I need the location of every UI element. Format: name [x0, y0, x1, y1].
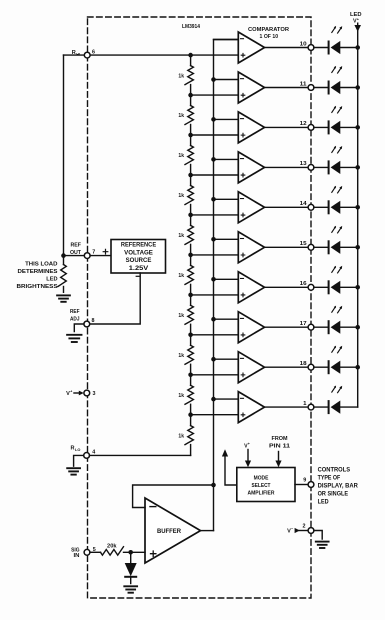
- wire ladder tap to U6 non-inverting input: [191, 254, 239, 256]
- svg-text:REF: REF: [71, 242, 82, 248]
- wire pin 13 to LED D4: [314, 166, 329, 168]
- wire signal bus to U10 inverting input: [214, 398, 239, 400]
- svg-text:REFERENCE: REFERENCE: [121, 242, 156, 249]
- svg-text:1k: 1k: [178, 313, 184, 319]
- LED D2: [328, 82, 330, 94]
- wire signal bus (buffer output to comparators): [214, 40, 239, 531]
- resistor 20k: [101, 547, 124, 555]
- mode select amplifier box: [237, 468, 295, 502]
- svg-text:15: 15: [300, 241, 307, 247]
- resistor R8 1k: [185, 345, 193, 364]
- junction input clamp: [128, 550, 133, 555]
- wire ladder tap to U4 non-inverting input: [191, 174, 239, 176]
- wire ladder tap to U5 non-inverting input: [191, 214, 239, 216]
- resistor R1 1k: [185, 66, 193, 85]
- wire ladder segment 6 lower lead: [190, 284, 192, 295]
- LED V+ rail wire: [357, 30, 359, 407]
- wire ladder tap to U3 non-inverting input: [191, 134, 239, 136]
- wire U4 output to pin 13: [265, 166, 309, 168]
- svg-text:ADJ: ADJ: [70, 317, 80, 323]
- wire LED D9 anode to V+ rail: [340, 366, 357, 368]
- resistor load (LED brightness): [63, 256, 65, 265]
- wire pin 2 to ground: [314, 531, 322, 540]
- svg-text:4: 4: [92, 449, 95, 455]
- wire pin 6 to left rail: [64, 54, 85, 56]
- wire FROM PIN 11 arrow into mode select: [278, 452, 280, 462]
- junction on signal bus at U7: [211, 277, 216, 282]
- wire signal bus to U4 inverting input: [214, 158, 239, 160]
- resistor R4 1k: [185, 186, 193, 205]
- wire ladder tap to U2 non-inverting input: [191, 94, 239, 96]
- svg-text:OR SINGLE: OR SINGLE: [318, 492, 349, 498]
- svg-text:R: R: [71, 445, 75, 451]
- wire ladder tap to U9 non-inverting input: [191, 374, 239, 376]
- wire U6 output to pin 15: [265, 246, 309, 248]
- junction REF OUT / load: [61, 253, 66, 258]
- op-amp comparator U7: [238, 272, 264, 303]
- svg-text:COMPARATOR: COMPARATOR: [248, 27, 289, 33]
- junction V+ rail row 9: [355, 365, 360, 370]
- wire pin 17 to LED D8: [314, 326, 329, 328]
- ground under clamp diode: [124, 585, 137, 587]
- wire ladder segment 1 lower lead: [190, 85, 192, 96]
- svg-text:PIN 11: PIN 11: [269, 444, 290, 450]
- svg-text:7: 7: [92, 249, 95, 255]
- wire ladder tap to U8 non-inverting input: [191, 334, 239, 336]
- reference voltage source box: [111, 240, 166, 274]
- wire buffer feedback loop: [133, 485, 214, 508]
- junction V+ rail row 5: [355, 205, 360, 210]
- svg-text:20k: 20k: [107, 544, 117, 550]
- wire ladder segment 2 upper lead: [190, 95, 192, 105]
- wire LED D2 anode to V+ rail: [340, 87, 357, 89]
- junction ladder tap 2: [188, 93, 193, 98]
- junction ladder tap 8: [188, 333, 193, 338]
- wire LED D1 anode to V+ rail: [340, 47, 357, 49]
- wire ladder segment 3 upper lead: [190, 135, 192, 146]
- wire ladder segment 10 upper lead: [190, 415, 192, 426]
- LED D5: [328, 201, 330, 213]
- wire signal bus to U3 inverting input: [214, 118, 239, 120]
- wire buffer output to signal bus: [201, 530, 214, 532]
- op-amp comparator U2: [238, 72, 264, 103]
- wire ladder segment 8 upper lead: [190, 335, 192, 346]
- wire ladder segment 1 upper lead: [190, 55, 192, 66]
- wire pin 7 to load node: [64, 255, 85, 257]
- resistor R5 1k: [185, 225, 193, 244]
- op-amp comparator U10: [238, 392, 264, 423]
- wire ladder tap to U10 non-inverting input: [191, 414, 239, 416]
- LED D6: [328, 241, 330, 253]
- wire ladder segment 9 lower lead: [190, 404, 192, 414]
- wire U2 output to pin 11: [265, 87, 309, 89]
- svg-text:DETERMINES: DETERMINES: [18, 269, 59, 275]
- ground at pin 2: [316, 541, 329, 543]
- resistor R9 1k: [185, 385, 193, 404]
- resistor R7 1k: [185, 305, 193, 324]
- junction V+ rail row 8: [355, 325, 360, 330]
- diode input clamp: [130, 552, 132, 563]
- junction on signal bus at U3: [211, 117, 216, 122]
- junction on signal bus at U5: [211, 197, 216, 202]
- LED D7: [328, 281, 330, 293]
- LED D9: [328, 361, 330, 373]
- wire signal bus to U7 inverting input: [214, 278, 239, 280]
- wire pin 4 to ladder bottom: [90, 454, 191, 456]
- wire ladder segment 10 lower lead: [190, 445, 192, 456]
- wire ladder segment 2 lower lead: [190, 125, 192, 136]
- junction on signal bus at U4: [211, 157, 216, 162]
- wire LED D3 anode to V+ rail: [340, 126, 357, 128]
- junction V+ rail row 2: [355, 85, 360, 90]
- junction on signal bus at U10: [211, 397, 216, 402]
- wire U1 output to pin 10: [265, 47, 309, 49]
- svg-text:1k: 1k: [178, 153, 184, 159]
- wire R_HI to ladder top and U1 non-inverting input: [90, 54, 238, 56]
- svg-text:13: 13: [300, 161, 307, 167]
- wire U9 output to pin 18: [265, 366, 309, 368]
- wire ladder segment 4 lower lead: [190, 205, 192, 215]
- svg-text:1: 1: [303, 401, 306, 407]
- wire ladder segment 4 upper lead: [190, 175, 192, 186]
- wire signal bus to U2 inverting input: [214, 79, 239, 81]
- svg-text:MODE: MODE: [254, 476, 269, 482]
- svg-text:THIS LOAD: THIS LOAD: [25, 261, 58, 267]
- svg-text:BUFFER: BUFFER: [157, 529, 182, 535]
- wire LED D10 anode to V+ rail: [340, 406, 357, 408]
- LED D1: [328, 42, 330, 54]
- svg-text:FROM: FROM: [272, 436, 288, 442]
- wire signal bus to U8 inverting input: [214, 318, 239, 320]
- wire LED D8 anode to V+ rail: [340, 326, 357, 328]
- wire ladder segment 8 lower lead: [190, 364, 192, 375]
- wire pin 16 to LED D7: [314, 286, 329, 288]
- svg-text:BRIGHTNESS: BRIGHTNESS: [17, 284, 59, 290]
- svg-text:12: 12: [300, 121, 307, 127]
- wire signal bus to U1 inverting input: [214, 39, 239, 41]
- svg-text:LO: LO: [75, 447, 80, 452]
- junction on signal bus at U6: [211, 237, 216, 242]
- svg-text:CONTROLS: CONTROLS: [318, 467, 351, 473]
- op-amp comparator U5: [238, 192, 264, 223]
- wire pin 8 to ground: [74, 324, 84, 332]
- wire ladder segment 7 lower lead: [190, 324, 192, 335]
- junction ladder tap 4: [188, 173, 193, 178]
- wire pin 4 to ground: [74, 455, 84, 466]
- LED D10: [328, 401, 330, 413]
- junction V+ rail row 7: [355, 285, 360, 290]
- wire mode select output to pin 9: [295, 484, 308, 486]
- wire U10 output to pin 1: [265, 406, 309, 408]
- wire pin 14 to LED D5: [314, 206, 329, 208]
- wire ladder segment 6 upper lead: [190, 255, 192, 266]
- wire ladder segment 5 lower lead: [190, 244, 192, 255]
- junction ladder top: [188, 53, 193, 58]
- junction ladder tap 3: [188, 133, 193, 138]
- svg-text:LED: LED: [46, 277, 57, 283]
- svg-text:TYPE OF: TYPE OF: [318, 475, 341, 481]
- svg-text:8: 8: [92, 318, 95, 324]
- svg-text:VOLTAGE: VOLTAGE: [124, 249, 153, 256]
- wire pin 7 to reference box: [90, 255, 111, 257]
- wire ladder segment 3 lower lead: [190, 165, 192, 176]
- LED D4: [328, 161, 330, 173]
- resistor R6 1k: [185, 265, 193, 284]
- op-amp comparator U9: [238, 352, 264, 383]
- wire resistor to buffer + input: [124, 551, 146, 553]
- resistor R2 1k: [185, 106, 193, 125]
- svg-text:1k: 1k: [178, 433, 184, 439]
- wire U8 output to pin 17: [265, 326, 309, 328]
- junction ladder tap 10: [188, 412, 193, 417]
- resistor R10 1k: [185, 426, 193, 445]
- svg-text:SELECT: SELECT: [252, 483, 271, 489]
- svg-text:SOURCE: SOURCE: [126, 257, 152, 264]
- wire reference box to pin 8: [90, 273, 140, 324]
- wire ladder segment 7 upper lead: [190, 295, 192, 305]
- wire pin 12 to LED D3: [314, 126, 329, 128]
- wire ladder segment 5 upper lead: [190, 215, 192, 226]
- ground under load resistor: [57, 294, 70, 296]
- svg-text:1 OF 10: 1 OF 10: [260, 34, 279, 40]
- junction ladder tap 5: [188, 213, 193, 218]
- op-amp comparator U3: [238, 112, 264, 143]
- op-amp comparator U1: [238, 32, 264, 63]
- wire ladder segment 9 upper lead: [190, 375, 192, 386]
- junction ladder tap 9: [188, 373, 193, 378]
- wire signal bus to U9 inverting input: [214, 358, 239, 360]
- svg-text:IN: IN: [74, 553, 80, 559]
- wire pin 15 to LED D6: [314, 246, 329, 248]
- wire LED D5 anode to V+ rail: [340, 206, 357, 208]
- svg-text:3: 3: [93, 391, 96, 397]
- svg-text:DISPLAY, BAR: DISPLAY, BAR: [318, 484, 359, 490]
- svg-text:1k: 1k: [178, 113, 184, 119]
- wire pin 5 to resistor: [90, 551, 101, 553]
- svg-text:6: 6: [92, 50, 95, 56]
- junction on signal bus at U9: [211, 357, 216, 362]
- wire U3 output to pin 12: [265, 126, 309, 128]
- resistor R3 1k: [185, 146, 193, 165]
- wire V+ arrow into mode select: [247, 450, 249, 462]
- junction V+ rail row 4: [355, 165, 360, 170]
- svg-text:1.25V: 1.25V: [129, 265, 150, 272]
- op-amp comparator U4: [238, 152, 264, 183]
- svg-text:10: 10: [300, 41, 307, 47]
- svg-text:1k: 1k: [178, 393, 184, 399]
- IC boundary dashed box LM3914: [88, 17, 312, 598]
- wire pin 11 to LED D2: [314, 87, 329, 89]
- wire U7 output to pin 16: [265, 286, 309, 288]
- junction V+ rail row 3: [355, 125, 360, 130]
- svg-text:1k: 1k: [178, 233, 184, 239]
- svg-text:1k: 1k: [178, 73, 184, 79]
- LED V+ supply arrow: [357, 23, 359, 26]
- svg-text:AMPLIFIER: AMPLIFIER: [248, 490, 275, 496]
- wire pin 1 to LED D10: [314, 406, 329, 408]
- wire LED D7 anode to V+ rail: [340, 286, 357, 288]
- ground at R_LO: [67, 467, 80, 469]
- wire left rail down to REF OUT node: [63, 55, 65, 256]
- svg-text:REF: REF: [70, 309, 80, 315]
- junction V+ rail row 1: [355, 45, 360, 50]
- wire U5 output to pin 14: [265, 206, 309, 208]
- svg-text:1k: 1k: [178, 353, 184, 359]
- svg-text:1k: 1k: [178, 273, 184, 279]
- wire ladder tap to U7 non-inverting input: [191, 294, 239, 296]
- svg-text:14: 14: [300, 201, 308, 207]
- svg-text:LM3914: LM3914: [182, 24, 201, 30]
- svg-text:+: +: [248, 442, 250, 446]
- op-amp buffer: [145, 498, 201, 563]
- svg-text:16: 16: [300, 281, 307, 287]
- wire signal bus to U6 inverting input: [214, 238, 239, 240]
- svg-text:9: 9: [303, 478, 306, 484]
- junction on signal bus at U2: [211, 77, 216, 82]
- svg-text:LED: LED: [318, 500, 330, 506]
- svg-text:17: 17: [300, 321, 307, 327]
- op-amp comparator U8: [238, 312, 264, 343]
- svg-text:1k: 1k: [178, 193, 184, 199]
- junction V+ rail row 6: [355, 245, 360, 250]
- junction ladder tap 6: [188, 253, 193, 258]
- LED D3: [328, 121, 330, 133]
- wire signal bus to U5 inverting input: [214, 198, 239, 200]
- ground at REF ADJ: [67, 334, 81, 336]
- junction feedback on signal bus: [211, 483, 216, 488]
- wire pin 18 to LED D9: [314, 366, 329, 368]
- svg-text:18: 18: [300, 361, 307, 367]
- wire LED D4 anode to V+ rail: [340, 166, 357, 168]
- svg-text:2: 2: [303, 524, 306, 530]
- wire pin 10 to LED D1: [314, 47, 329, 49]
- svg-text:11: 11: [300, 81, 307, 87]
- wire mode select control arrow: [225, 456, 237, 486]
- junction on signal bus at U8: [211, 317, 216, 322]
- LED D8: [328, 321, 330, 333]
- junction ladder tap 7: [188, 293, 193, 298]
- op-amp comparator U6: [238, 232, 264, 263]
- wire LED D6 anode to V+ rail: [340, 246, 357, 248]
